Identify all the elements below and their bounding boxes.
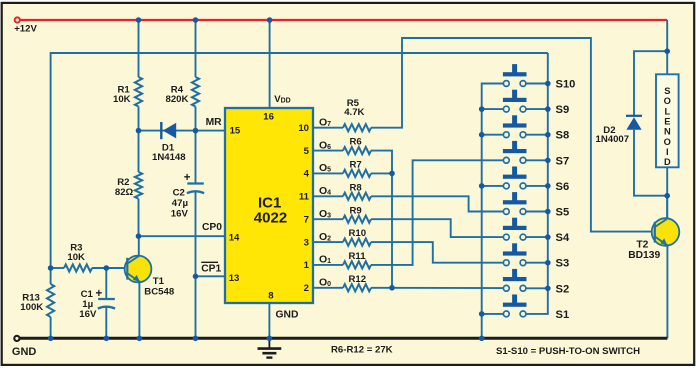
svg-text:S3: S3: [556, 258, 570, 270]
wire R13 to gnd: [50, 317, 52, 338]
svg-text:S1: S1: [556, 309, 570, 321]
capacitor C1 1u 16V: [79, 268, 115, 338]
ground symbol: [258, 340, 282, 358]
wire +12V to solenoid: [666, 20, 668, 74]
wire T1 collector: [138, 236, 140, 256]
switch S10: [503, 64, 548, 86]
solenoid coil: [656, 74, 679, 167]
svg-text:820K: 820K: [166, 94, 189, 105]
resistor R12: [343, 274, 371, 292]
svg-text:R10: R10: [349, 228, 367, 239]
op IC1 4022 box: [225, 108, 313, 303]
wire C2 bottom to gnd: [195, 192, 197, 338]
svg-text:8: 8: [268, 290, 274, 301]
svg-text:47µ: 47µ: [172, 198, 188, 209]
GND rail: [14, 336, 667, 341]
svg-text:GND: GND: [276, 310, 299, 321]
wire Vdd: [269, 20, 271, 108]
svg-text:CP0: CP0: [202, 222, 222, 233]
svg-text:16V: 16V: [79, 309, 97, 320]
svg-text:O: O: [664, 96, 671, 106]
wire R7 join: [371, 172, 392, 174]
svg-text:L: L: [664, 106, 670, 116]
svg-text:R6-R12 = 27K: R6-R12 = 27K: [331, 345, 393, 356]
diode D1 1N4148: [152, 122, 186, 163]
svg-text:100K: 100K: [20, 302, 43, 313]
switch S5: [503, 192, 548, 214]
svg-text:1: 1: [304, 260, 310, 271]
+12V rail: [15, 17, 668, 22]
wire O6 stub: [314, 150, 343, 152]
svg-text:R11: R11: [349, 251, 367, 262]
wire S6 left lead: [482, 185, 504, 187]
svg-text:10: 10: [298, 123, 309, 134]
wire C2 top: [195, 131, 197, 183]
svg-text:O: O: [664, 137, 671, 147]
wire S8 left lead: [482, 134, 504, 136]
svg-text:4: 4: [304, 169, 310, 180]
wire R1 bottom: [138, 107, 140, 131]
wire O1 stub: [314, 264, 343, 266]
wire R5 to T2 base: [371, 38, 655, 232]
svg-text:S8: S8: [556, 130, 570, 142]
wire O4 stub: [314, 195, 343, 197]
wire solenoid to T2: [666, 167, 668, 219]
wire R10 to S3: [371, 242, 504, 263]
svg-text:MR: MR: [206, 117, 223, 128]
wire left vertical to R13: [50, 268, 52, 284]
svg-text:+12V: +12V: [14, 24, 37, 35]
svg-text:R8: R8: [350, 182, 363, 193]
wire R2 bottom: [138, 199, 140, 237]
switch S7: [503, 141, 548, 163]
svg-text:1N4148: 1N4148: [152, 152, 186, 163]
svg-text:15: 15: [230, 126, 241, 137]
resistor R8: [343, 182, 371, 200]
wire R2 top: [138, 131, 140, 172]
wire R4 bottom: [195, 107, 197, 131]
wire R12 to S2: [371, 287, 504, 289]
svg-text:11: 11: [299, 192, 310, 203]
svg-text:D: D: [664, 157, 671, 167]
resistor R4: [166, 77, 200, 107]
resistor R10: [343, 228, 371, 246]
svg-text:S5: S5: [556, 207, 570, 219]
svg-text:E: E: [664, 117, 670, 127]
svg-text:2: 2: [304, 283, 309, 294]
svg-text:10K: 10K: [113, 94, 131, 105]
svg-text:3: 3: [304, 237, 309, 248]
wire R8 to S5: [371, 196, 504, 211]
svg-text:R12: R12: [349, 274, 367, 285]
wire R4 top: [195, 20, 197, 77]
wire CP0 row: [139, 235, 226, 237]
wire O2 stub: [314, 241, 343, 243]
switch S3: [503, 243, 548, 265]
resistor R3 10K: [64, 242, 92, 271]
svg-text:4.7K: 4.7K: [344, 107, 364, 118]
svg-text:CP1: CP1: [201, 264, 221, 275]
wire CP1 row: [196, 275, 226, 277]
wire clock line: [51, 53, 548, 268]
wire R6 down: [371, 151, 392, 288]
switch S9: [503, 90, 548, 112]
resistor R11: [343, 251, 371, 269]
svg-text:R7: R7: [350, 160, 362, 171]
svg-text:S6: S6: [556, 181, 570, 193]
resistor R5: [343, 98, 371, 132]
svg-text:+: +: [96, 288, 103, 300]
svg-text:14: 14: [229, 232, 240, 243]
svg-text:+: +: [184, 172, 191, 184]
svg-text:16: 16: [263, 112, 274, 123]
svg-text:S7: S7: [556, 155, 570, 167]
switch S8: [503, 115, 548, 137]
switch S4: [503, 218, 548, 240]
switch S6: [503, 167, 548, 189]
svg-text:1N4007: 1N4007: [596, 134, 630, 145]
wire T2 collector: [666, 196, 668, 220]
resistor R6: [343, 137, 371, 155]
wire O0 stub: [314, 287, 343, 289]
svg-text:S4: S4: [556, 232, 570, 244]
switch S2: [503, 269, 548, 291]
wire R3 to T1 base: [92, 267, 127, 269]
svg-text:16V: 16V: [171, 209, 189, 220]
svg-text:S9: S9: [556, 104, 570, 116]
svg-text:T1: T1: [153, 276, 165, 287]
svg-text:N: N: [664, 127, 671, 137]
wire O3 stub: [314, 218, 343, 220]
wire D2 branch top: [634, 51, 667, 115]
wire left bus: [482, 84, 504, 339]
svg-text:GND: GND: [12, 346, 37, 358]
wire T1 emitter: [138, 281, 140, 339]
svg-text:I: I: [666, 147, 669, 157]
resistor R7: [343, 160, 371, 178]
svg-text:82Ω: 82Ω: [115, 187, 134, 198]
wire right bus: [526, 53, 548, 314]
resistor R2: [115, 172, 142, 199]
wire T2 emitter: [666, 244, 668, 338]
wire R3 left: [51, 267, 64, 269]
svg-text:10K: 10K: [67, 252, 85, 263]
svg-text:S2: S2: [556, 283, 570, 295]
wire O5 stub: [314, 172, 343, 174]
transistor T1 BC548: [125, 256, 175, 298]
svg-text:BD139: BD139: [628, 250, 660, 261]
svg-text:R6: R6: [350, 137, 362, 148]
wire O7 stub: [314, 127, 343, 129]
resistor R13: [20, 284, 54, 317]
wire S9 left lead: [482, 108, 504, 110]
svg-text:7: 7: [304, 215, 309, 226]
transistor T2 BD139: [628, 218, 679, 261]
svg-text:BC548: BC548: [144, 287, 175, 298]
svg-text:4022: 4022: [254, 210, 287, 227]
resistor R1: [113, 77, 142, 107]
svg-text:T2: T2: [636, 239, 648, 250]
switch S1: [503, 295, 527, 317]
label CP1: [201, 262, 221, 274]
capacitor C2 47u 16V: [171, 172, 204, 219]
wire S1 left lead: [482, 313, 504, 315]
diode D2 1N4007: [596, 116, 643, 145]
svg-text:R9: R9: [350, 205, 362, 216]
wire R11 to S7: [371, 160, 504, 265]
svg-text:13: 13: [229, 273, 240, 284]
svg-text:S1-S10 = PUSH-TO-ON SWITCH: S1-S10 = PUSH-TO-ON SWITCH: [496, 346, 640, 357]
wire pin8 to gnd: [268, 303, 270, 338]
wire R1 top: [138, 20, 140, 77]
svg-text:5: 5: [304, 146, 310, 157]
resistor R9: [343, 205, 371, 223]
wire R9 to S4: [371, 219, 504, 237]
svg-text:S10: S10: [556, 79, 576, 91]
wire D2 branch bottom: [634, 130, 667, 196]
wire MR row: [139, 130, 226, 132]
svg-text:S: S: [664, 86, 670, 96]
